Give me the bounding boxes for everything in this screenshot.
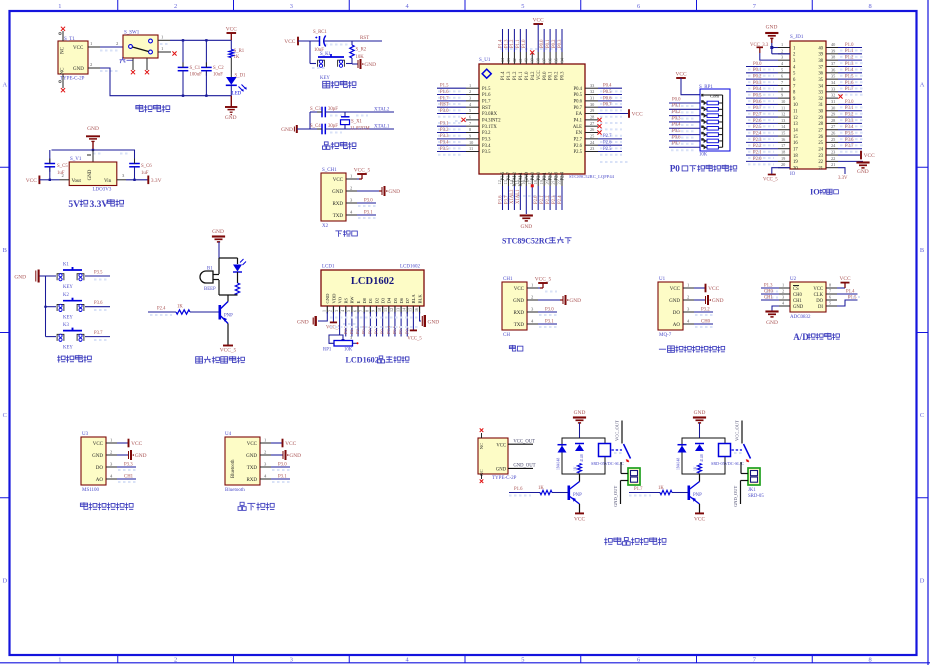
svg-text:VCC: VCC xyxy=(574,517,585,523)
svg-text:NC: NC xyxy=(61,46,66,54)
svg-text:GND: GND xyxy=(364,62,376,68)
svg-text:P2.1: P2.1 xyxy=(753,150,762,155)
svg-text:GND: GND xyxy=(281,127,293,133)
svg-text:P1.3: P1.3 xyxy=(504,39,509,48)
svg-text:VCC: VCC xyxy=(226,26,237,32)
svg-text:CH1: CH1 xyxy=(793,299,803,304)
svg-text:P2.2: P2.2 xyxy=(546,195,551,204)
svg-text:P1.3: P1.3 xyxy=(845,62,854,67)
svg-text:23: 23 xyxy=(831,150,835,155)
svg-text:P3.5: P3.5 xyxy=(482,150,491,155)
svg-text:S_K1: S_K1 xyxy=(320,52,332,57)
svg-text:GND: GND xyxy=(513,299,524,304)
svg-text:GND: GND xyxy=(212,229,224,235)
svg-text:X2: X2 xyxy=(322,224,329,229)
svg-text:P3.2: P3.2 xyxy=(701,308,710,313)
svg-text:GND: GND xyxy=(388,189,400,195)
svg-text:XTAL1: XTAL1 xyxy=(374,125,390,130)
svg-text:1K: 1K xyxy=(177,305,183,310)
svg-text:11: 11 xyxy=(469,146,473,151)
svg-text:28: 28 xyxy=(590,115,594,120)
svg-text:3.3V: 3.3V xyxy=(838,176,848,181)
svg-text:6: 6 xyxy=(637,656,640,663)
svg-text:P0: P0 xyxy=(670,164,681,174)
svg-text:10: 10 xyxy=(793,103,798,108)
svg-text:LED: LED xyxy=(232,92,242,97)
svg-text:P1.1: P1.1 xyxy=(519,71,524,80)
svg-text:P3.5: P3.5 xyxy=(845,131,854,136)
svg-text:P3.0: P3.0 xyxy=(364,199,373,204)
svg-text:VCC: VCC xyxy=(285,441,296,447)
svg-text:30pF: 30pF xyxy=(328,107,338,112)
svg-text:14: 14 xyxy=(793,129,798,134)
svg-text:P1.2: P1.2 xyxy=(845,56,854,61)
svg-text:D7: D7 xyxy=(405,297,410,303)
svg-text:27: 27 xyxy=(818,129,823,134)
svg-text:P2.1: P2.1 xyxy=(543,171,548,180)
svg-text:E: E xyxy=(356,301,361,304)
svg-text:S_C2: S_C2 xyxy=(213,66,224,71)
svg-text:CH: CH xyxy=(503,333,510,338)
svg-text:VCC: VCC xyxy=(73,46,84,51)
svg-text:GND: GND xyxy=(694,410,706,416)
svg-text:LDO3V3: LDO3V3 xyxy=(93,188,112,193)
svg-text:RST: RST xyxy=(482,106,491,111)
svg-text:3.3V: 3.3V xyxy=(151,178,162,184)
svg-text:P0.2: P0.2 xyxy=(555,71,560,80)
svg-text:VCC_5: VCC_5 xyxy=(407,337,422,342)
svg-text:35: 35 xyxy=(553,58,558,62)
svg-text:K3: K3 xyxy=(63,323,69,328)
svg-text:XTAL1: XTAL1 xyxy=(516,189,521,204)
svg-text:P3.6: P3.6 xyxy=(94,301,103,306)
svg-text:29: 29 xyxy=(831,112,835,117)
svg-text:1: 1 xyxy=(58,656,61,663)
svg-text:VCC: VCC xyxy=(537,70,542,80)
svg-text:TXD: TXD xyxy=(247,466,258,471)
svg-text:P1.0: P1.0 xyxy=(845,43,854,48)
svg-text:GND: GND xyxy=(766,25,778,31)
svg-text:P3.1: P3.1 xyxy=(364,211,373,216)
svg-text:P0.1: P0.1 xyxy=(672,104,681,109)
svg-text:P1.6: P1.6 xyxy=(440,90,449,95)
svg-text:GND: GND xyxy=(574,410,586,416)
svg-text:P0.0: P0.0 xyxy=(540,39,545,48)
svg-text:11: 11 xyxy=(793,110,798,115)
svg-text:S_C3: S_C3 xyxy=(310,107,321,112)
svg-text:P2.0: P2.0 xyxy=(534,195,539,204)
svg-text:P0.7: P0.7 xyxy=(753,106,762,111)
svg-text:SRD-05VDC-SL-C: SRD-05VDC-SL-C xyxy=(711,461,744,466)
svg-text:D6: D6 xyxy=(399,297,404,303)
svg-text:S_JD1: S_JD1 xyxy=(790,35,804,40)
svg-text:VCC: VCC xyxy=(670,287,681,292)
svg-text:P0.3: P0.3 xyxy=(558,39,563,48)
svg-text:10uF: 10uF xyxy=(213,73,223,78)
svg-text:TXD: TXD xyxy=(514,323,525,328)
svg-text:1N4148: 1N4148 xyxy=(677,458,681,470)
svg-text:1: 1 xyxy=(328,335,330,340)
svg-text:D5: D5 xyxy=(393,297,398,303)
svg-text:LCD1602: LCD1602 xyxy=(400,265,421,270)
svg-text:3: 3 xyxy=(781,55,783,60)
svg-text:S_CH1: S_CH1 xyxy=(322,168,337,173)
svg-text:8: 8 xyxy=(469,127,471,132)
svg-text:S_D1: S_D1 xyxy=(235,74,247,79)
svg-text:P1.3: P1.3 xyxy=(764,284,773,289)
svg-text:32: 32 xyxy=(831,93,835,98)
svg-text:P3.1: P3.1 xyxy=(845,106,854,111)
svg-text:PNP: PNP xyxy=(224,314,233,319)
svg-text:GND: GND xyxy=(496,468,507,473)
svg-text:34: 34 xyxy=(818,84,823,89)
svg-text:3: 3 xyxy=(334,310,339,312)
svg-text:TYPE-C-2P: TYPE-C-2P xyxy=(60,77,85,82)
svg-text:10: 10 xyxy=(469,140,473,145)
svg-text:11: 11 xyxy=(781,105,785,110)
svg-text:GND: GND xyxy=(766,320,778,326)
svg-text:P1.4: P1.4 xyxy=(501,71,506,80)
svg-text:GND: GND xyxy=(332,190,343,195)
svg-text:P3.3: P3.3 xyxy=(124,463,133,468)
svg-text:P2.3: P2.3 xyxy=(555,171,560,180)
svg-text:P0.1: P0.1 xyxy=(549,71,554,80)
svg-text:P2.6: P2.6 xyxy=(753,119,762,124)
svg-text:TYPE-C-2P: TYPE-C-2P xyxy=(492,476,517,481)
svg-text:25: 25 xyxy=(818,141,823,146)
svg-text:33: 33 xyxy=(818,91,823,96)
svg-text:4148: 4148 xyxy=(580,454,584,462)
svg-text:10: 10 xyxy=(377,308,382,312)
svg-text:P0.0: P0.0 xyxy=(543,71,548,80)
svg-text:XTAL2: XTAL2 xyxy=(510,189,515,204)
svg-text:VCC: VCC xyxy=(131,441,142,447)
svg-text:17: 17 xyxy=(793,148,798,153)
svg-text:11.0592M: 11.0592M xyxy=(350,127,370,132)
svg-text:RXD: RXD xyxy=(332,202,343,207)
svg-text:GND: GND xyxy=(225,115,237,121)
svg-text:6: 6 xyxy=(352,310,357,312)
svg-text:15: 15 xyxy=(793,135,798,140)
svg-text:5: 5 xyxy=(829,301,831,306)
svg-text:32: 32 xyxy=(818,97,823,102)
svg-text:GND: GND xyxy=(325,293,330,304)
svg-text:P1.3: P1.3 xyxy=(507,71,512,80)
svg-text:5: 5 xyxy=(346,310,351,312)
svg-text:P1.7: P1.7 xyxy=(845,87,854,92)
svg-text:DO: DO xyxy=(96,466,104,471)
svg-text:P4.3INT2: P4.3INT2 xyxy=(482,119,501,124)
svg-text:2: 2 xyxy=(782,289,784,294)
svg-text:P2.2: P2.2 xyxy=(549,171,554,180)
svg-text:P4.0: P4.0 xyxy=(531,171,536,180)
svg-text:P2.0: P2.0 xyxy=(537,171,542,180)
svg-text:VCC: VCC xyxy=(708,286,719,292)
svg-text:P1.5: P1.5 xyxy=(482,87,491,92)
svg-text:VCC_5: VCC_5 xyxy=(220,348,237,354)
svg-text:P0.7: P0.7 xyxy=(574,106,583,111)
svg-text:GND: GND xyxy=(428,320,440,326)
svg-text:GND: GND xyxy=(857,169,869,175)
svg-text:38: 38 xyxy=(831,55,835,60)
svg-text:2: 2 xyxy=(174,656,177,663)
svg-text:P4.2: P4.2 xyxy=(531,71,536,80)
svg-text:A: A xyxy=(920,82,925,89)
svg-text:P1.0: P1.0 xyxy=(522,39,527,48)
svg-text:S_C4: S_C4 xyxy=(310,124,321,129)
svg-text:5: 5 xyxy=(781,67,783,72)
svg-text:1K: 1K xyxy=(574,466,578,471)
svg-text:VCC: VCC xyxy=(864,153,875,159)
svg-text:35: 35 xyxy=(831,74,835,79)
svg-text:12: 12 xyxy=(389,308,394,312)
svg-text:GND_OUT: GND_OUT xyxy=(733,486,738,507)
svg-text:P2.1: P2.1 xyxy=(540,195,545,204)
svg-text:29: 29 xyxy=(818,116,823,121)
svg-text:25: 25 xyxy=(590,134,594,139)
svg-text:RST: RST xyxy=(440,103,449,108)
svg-text:9: 9 xyxy=(469,134,471,139)
svg-text:9: 9 xyxy=(781,93,783,98)
svg-text:1K: 1K xyxy=(658,486,664,491)
svg-text:33: 33 xyxy=(590,83,594,88)
svg-text:P0.3: P0.3 xyxy=(753,81,762,86)
svg-text:LCD1602: LCD1602 xyxy=(351,276,394,287)
svg-text:GND_OUT: GND_OUT xyxy=(513,464,535,469)
svg-text:25: 25 xyxy=(831,137,835,142)
svg-text:P0.6: P0.6 xyxy=(672,135,681,140)
svg-text:VCC_OUT: VCC_OUT xyxy=(735,420,740,441)
svg-text:3: 3 xyxy=(290,3,293,10)
svg-text:S_SW1: S_SW1 xyxy=(124,31,140,36)
svg-text:P2.4: P2.4 xyxy=(561,171,566,180)
svg-text:B: B xyxy=(920,247,924,254)
svg-text:S_R2: S_R2 xyxy=(356,48,367,53)
svg-text:31: 31 xyxy=(831,99,835,104)
svg-text:S_U1: S_U1 xyxy=(479,58,491,63)
svg-text:41: 41 xyxy=(518,58,523,62)
svg-text:U4: U4 xyxy=(225,432,232,437)
svg-text:P0.2: P0.2 xyxy=(672,110,681,115)
svg-text:JK1: JK1 xyxy=(748,488,756,493)
svg-text:P0.6: P0.6 xyxy=(753,100,762,105)
svg-text:P0.4: P0.4 xyxy=(672,123,681,128)
svg-text:P3.1: P3.1 xyxy=(440,122,449,127)
svg-text:P2.6: P2.6 xyxy=(574,144,583,149)
svg-text:ADC0832: ADC0832 xyxy=(790,315,811,320)
svg-text:31: 31 xyxy=(818,103,823,108)
svg-text:P0.7: P0.7 xyxy=(603,103,612,108)
svg-text:RXD: RXD xyxy=(246,478,257,483)
svg-text:20: 20 xyxy=(781,162,785,167)
svg-text:VCC: VCC xyxy=(514,287,525,292)
svg-text:NC: NC xyxy=(61,67,66,75)
svg-text:P3.2: P3.2 xyxy=(440,128,449,133)
svg-text:CH1: CH1 xyxy=(764,296,774,301)
svg-text:1K: 1K xyxy=(538,486,544,491)
svg-text:40: 40 xyxy=(831,42,835,47)
svg-text:19: 19 xyxy=(793,160,798,165)
svg-text:GND: GND xyxy=(712,298,724,304)
svg-text:11: 11 xyxy=(383,308,388,312)
svg-text:CH0: CH0 xyxy=(701,320,711,325)
svg-text:K2: K2 xyxy=(63,293,69,298)
svg-text:LCD1602: LCD1602 xyxy=(346,356,379,365)
svg-text:S_C6: S_C6 xyxy=(141,164,152,169)
svg-text:P0.5: P0.5 xyxy=(672,129,681,134)
svg-text:P0.5: P0.5 xyxy=(753,94,762,99)
svg-text:VCC_5: VCC_5 xyxy=(535,276,552,282)
svg-text:19: 19 xyxy=(781,156,785,161)
svg-text:P3.7: P3.7 xyxy=(504,195,509,204)
svg-text:A/D: A/D xyxy=(793,332,809,342)
svg-text:VCC: VCC xyxy=(26,178,37,184)
svg-text:P0.6: P0.6 xyxy=(603,96,612,101)
svg-text:6: 6 xyxy=(637,3,640,10)
svg-text:P2.2: P2.2 xyxy=(753,144,762,149)
svg-text:GND: GND xyxy=(246,454,257,459)
svg-text:13: 13 xyxy=(793,122,798,127)
svg-text:3: 3 xyxy=(469,96,471,101)
svg-text:GND: GND xyxy=(669,299,680,304)
svg-text:P3.0: P3.0 xyxy=(278,463,287,468)
svg-text:P1.7: P1.7 xyxy=(482,100,491,105)
svg-text:P1.4: P1.4 xyxy=(845,68,854,73)
svg-text:2: 2 xyxy=(174,3,177,10)
svg-text:EA: EA xyxy=(576,112,583,117)
svg-text:GND_OUT: GND_OUT xyxy=(613,486,618,507)
svg-text:35: 35 xyxy=(818,78,823,83)
svg-text:DO: DO xyxy=(816,299,823,304)
svg-text:P1.7: P1.7 xyxy=(634,487,643,492)
svg-text:42: 42 xyxy=(512,58,517,62)
svg-text:1K: 1K xyxy=(234,55,240,60)
svg-text:XTAL2: XTAL2 xyxy=(374,108,390,113)
svg-text:VCC_5: VCC_5 xyxy=(326,326,341,331)
svg-text:P3.6: P3.6 xyxy=(845,138,854,143)
svg-text:Vout: Vout xyxy=(72,179,82,184)
svg-text:CH1: CH1 xyxy=(124,475,134,480)
svg-text:GND: GND xyxy=(793,305,804,310)
svg-text:GND: GND xyxy=(88,169,93,180)
svg-text:A: A xyxy=(2,82,7,89)
svg-text:VCC: VCC xyxy=(496,443,506,448)
svg-text:P2.7: P2.7 xyxy=(603,134,612,139)
svg-text:2: 2 xyxy=(469,89,471,94)
svg-text:GND: GND xyxy=(92,454,103,459)
svg-text:33: 33 xyxy=(831,86,835,91)
svg-text:RW: RW xyxy=(350,296,355,304)
svg-text:VCC_5: VCC_5 xyxy=(354,167,371,173)
svg-text:18: 18 xyxy=(781,150,785,155)
svg-text:Vin: Vin xyxy=(104,179,112,184)
svg-text:VCC: VCC xyxy=(247,442,258,447)
svg-text:P1.4: P1.4 xyxy=(846,290,855,295)
svg-text:P0.1: P0.1 xyxy=(546,39,551,48)
svg-text:5: 5 xyxy=(521,3,524,10)
svg-text:VCC: VCC xyxy=(675,71,686,77)
svg-text:8: 8 xyxy=(869,3,872,10)
svg-text:P1.6: P1.6 xyxy=(845,81,854,86)
svg-text:D2: D2 xyxy=(374,297,379,303)
svg-text:S_V1: S_V1 xyxy=(70,157,82,162)
svg-text:RST: RST xyxy=(360,36,369,41)
svg-text:Com: Com xyxy=(710,94,719,99)
svg-text:P3.2: P3.2 xyxy=(845,112,854,117)
svg-text:P2.6: P2.6 xyxy=(603,141,612,146)
svg-text:P3.7: P3.7 xyxy=(507,171,512,180)
svg-text:VCC: VCC xyxy=(632,112,643,118)
svg-text:S_RC1: S_RC1 xyxy=(313,30,327,35)
svg-text:CS: CS xyxy=(793,287,799,292)
svg-text:3.3V: 3.3V xyxy=(90,200,109,210)
svg-text:GND: GND xyxy=(520,224,532,230)
svg-text:P1.5: P1.5 xyxy=(440,84,449,89)
svg-text:P0.2: P0.2 xyxy=(552,39,557,48)
svg-text:P1.0: P1.0 xyxy=(525,71,530,80)
svg-text:P3.3: P3.3 xyxy=(482,138,491,143)
svg-text:S_C1: S_C1 xyxy=(190,66,201,71)
svg-text:38: 38 xyxy=(818,59,823,64)
svg-text:P3.2: P3.2 xyxy=(482,131,491,136)
svg-text:26: 26 xyxy=(818,135,823,140)
svg-text:P1.5: P1.5 xyxy=(845,75,854,80)
svg-text:9: 9 xyxy=(371,310,376,312)
svg-text:MQ-7: MQ-7 xyxy=(659,333,672,338)
svg-text:P3.7: P3.7 xyxy=(845,144,854,149)
svg-text:RS: RS xyxy=(344,297,349,303)
svg-text:P0.3: P0.3 xyxy=(672,116,681,121)
svg-text:SRD-05VDC-SL-C: SRD-05VDC-SL-C xyxy=(591,461,624,466)
svg-text:P0.5: P0.5 xyxy=(574,93,583,98)
svg-text:P1.7: P1.7 xyxy=(440,96,449,101)
svg-text:3: 3 xyxy=(782,295,784,300)
svg-text:3: 3 xyxy=(290,656,293,663)
svg-text:5: 5 xyxy=(521,656,524,663)
svg-text:8: 8 xyxy=(829,283,831,288)
svg-text:43: 43 xyxy=(506,58,511,62)
svg-text:P1.5: P1.5 xyxy=(848,296,857,301)
svg-text:GND: GND xyxy=(87,126,99,132)
svg-text:VCC_OUT: VCC_OUT xyxy=(615,420,620,441)
svg-text:B1: B1 xyxy=(207,267,213,272)
svg-text:1: 1 xyxy=(58,3,61,10)
svg-text:P3.0RX: P3.0RX xyxy=(482,112,498,117)
svg-text:P2.4: P2.4 xyxy=(157,307,166,312)
svg-text:12: 12 xyxy=(781,112,785,117)
svg-text:10: 10 xyxy=(781,99,785,104)
svg-text:RXD: RXD xyxy=(513,311,524,316)
svg-text:P3.4: P3.4 xyxy=(440,141,449,146)
svg-text:1N4148: 1N4148 xyxy=(557,458,561,470)
svg-text:P3.0: P3.0 xyxy=(440,109,449,114)
svg-text:ALE: ALE xyxy=(573,125,582,130)
svg-text:P3.6: P3.6 xyxy=(498,195,503,204)
svg-text:7: 7 xyxy=(358,310,363,312)
svg-text:38: 38 xyxy=(536,58,541,62)
svg-text:P2.5: P2.5 xyxy=(753,125,762,130)
svg-text:10K: 10K xyxy=(344,348,353,353)
svg-text:P2.4: P2.4 xyxy=(558,195,563,204)
svg-text:C: C xyxy=(3,412,7,419)
svg-text:P0.4: P0.4 xyxy=(753,87,762,92)
svg-text:8: 8 xyxy=(781,86,783,91)
svg-text:P3.3: P3.3 xyxy=(845,119,854,124)
svg-text:VCC: VCC xyxy=(333,178,344,183)
svg-text:GND: GND xyxy=(289,453,301,459)
svg-text:GND: GND xyxy=(297,320,309,326)
svg-text:BLK: BLK xyxy=(417,294,422,304)
